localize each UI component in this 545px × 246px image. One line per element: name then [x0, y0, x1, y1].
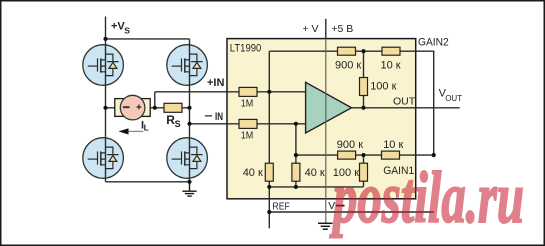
svg-text:OUT: OUT: [393, 95, 416, 107]
wire Rs to rail: [182, 107, 190, 109]
node motor left: [103, 106, 107, 110]
resistor 1M bottom: [239, 119, 257, 128]
motor M circle: [120, 95, 145, 120]
transistor Q3 (bottom-left): [83, 138, 124, 179]
node ref row left: [267, 185, 271, 189]
svg-text:+5 В: +5 В: [331, 23, 353, 35]
svg-text:1M: 1M: [241, 129, 254, 141]
resistor 100k bottom: [360, 163, 368, 181]
wire -IN: [190, 123, 240, 125]
svg-text:100 к: 100 к: [370, 80, 396, 92]
op-amp U1: [306, 82, 352, 133]
node gain ref tie: [432, 153, 436, 157]
resistor 40k right: [292, 163, 300, 181]
resistor 900k top: [338, 47, 356, 55]
svg-text:GAIN2: GAIN2: [418, 36, 449, 48]
svg-text:S: S: [124, 25, 130, 35]
node plus input: [267, 90, 271, 94]
wire +Vs stub: [105, 17, 107, 39]
wire ref bottom row: [269, 186, 363, 188]
wire +IN riser: [154, 92, 156, 108]
wire right rail overlay through mosfets: [189, 44, 191, 179]
motor M backing plate: [115, 99, 150, 117]
resistor 100k top: [360, 78, 368, 96]
node gain1 tee right: [361, 153, 365, 157]
motor plus sign: [137, 105, 142, 110]
svg-text:REF: REF: [272, 201, 290, 213]
node gain1 tee left: [294, 153, 298, 157]
resistor 900k bottom: [338, 151, 356, 159]
svg-text:+V: +V: [111, 21, 125, 33]
wire gain1 row: [296, 154, 434, 156]
wire ref horizontal: [269, 211, 433, 213]
svg-text:postila.ru: postila.ru: [329, 157, 524, 238]
wire output: [352, 107, 460, 109]
resistor 10k bottom: [382, 151, 400, 159]
wire 40k2 bottom stub: [295, 181, 297, 187]
resistor 1M top: [239, 87, 257, 96]
node motor right / +IN: [153, 106, 157, 110]
svg-text:900 к: 900 к: [337, 139, 363, 151]
transistor Q4 (bottom-right): [167, 138, 208, 179]
wire +IN inside chip: [257, 91, 306, 93]
chip LT1990 body: [227, 39, 416, 199]
node Rs right: [187, 106, 191, 110]
svg-text:10 к: 10 к: [381, 59, 401, 71]
svg-text:LT1990: LT1990: [230, 42, 261, 54]
wire bottom bridge: [106, 181, 190, 183]
node ref row mid: [294, 185, 298, 189]
svg-text:900 к: 900 к: [335, 59, 361, 71]
wire riser plus node: [268, 51, 270, 163]
ground (V-): [318, 223, 333, 229]
wire ref drop: [268, 181, 270, 228]
svg-text:−: −: [204, 111, 213, 123]
svg-text:IN: IN: [215, 111, 223, 123]
motor minus sign: [123, 106, 130, 108]
wire internal supply V line: [325, 39, 327, 224]
wire gain2 top row: [269, 51, 433, 155]
resistor Rs: [164, 103, 182, 112]
node gain2 tee: [361, 49, 365, 53]
transistor Q2 (top-right): [167, 45, 208, 86]
wire left rail: [105, 39, 107, 182]
svg-text:+IN: +IN: [207, 77, 224, 89]
node ref wire: [267, 210, 271, 214]
node -IN tap: [187, 122, 191, 126]
wire riser minus node: [295, 124, 297, 163]
node bridge ground: [187, 180, 191, 184]
node output: [361, 106, 365, 110]
wire top supply: [106, 38, 190, 40]
wire 100k1 stubs: [363, 51, 365, 108]
wire motor leads: [106, 107, 165, 109]
wire +IN: [155, 91, 239, 93]
wire left rail overlay through mosfets: [105, 44, 107, 179]
svg-text:+ V: + V: [303, 23, 319, 35]
svg-text:OUT: OUT: [445, 94, 462, 103]
wire -IN inside chip: [257, 123, 306, 125]
wire +5V stub: [325, 19, 327, 39]
resistor 40k left: [265, 163, 273, 181]
ground (H-bridge): [182, 182, 196, 196]
current arrow IL: [128, 130, 144, 132]
wire right rail: [189, 39, 191, 182]
node +Vs tee: [103, 37, 107, 41]
svg-text:10 к: 10 к: [383, 139, 403, 151]
svg-text:40 к: 40 к: [243, 167, 263, 179]
svg-text:L: L: [144, 123, 149, 133]
svg-text:S: S: [175, 119, 181, 129]
node minus input: [294, 122, 298, 126]
svg-text:1M: 1M: [241, 97, 254, 109]
svg-text:40 к: 40 к: [305, 167, 325, 179]
resistor 10k top: [382, 47, 400, 55]
transistor Q1 (top-left): [83, 45, 124, 86]
wire 100k2 stubs: [363, 155, 365, 187]
